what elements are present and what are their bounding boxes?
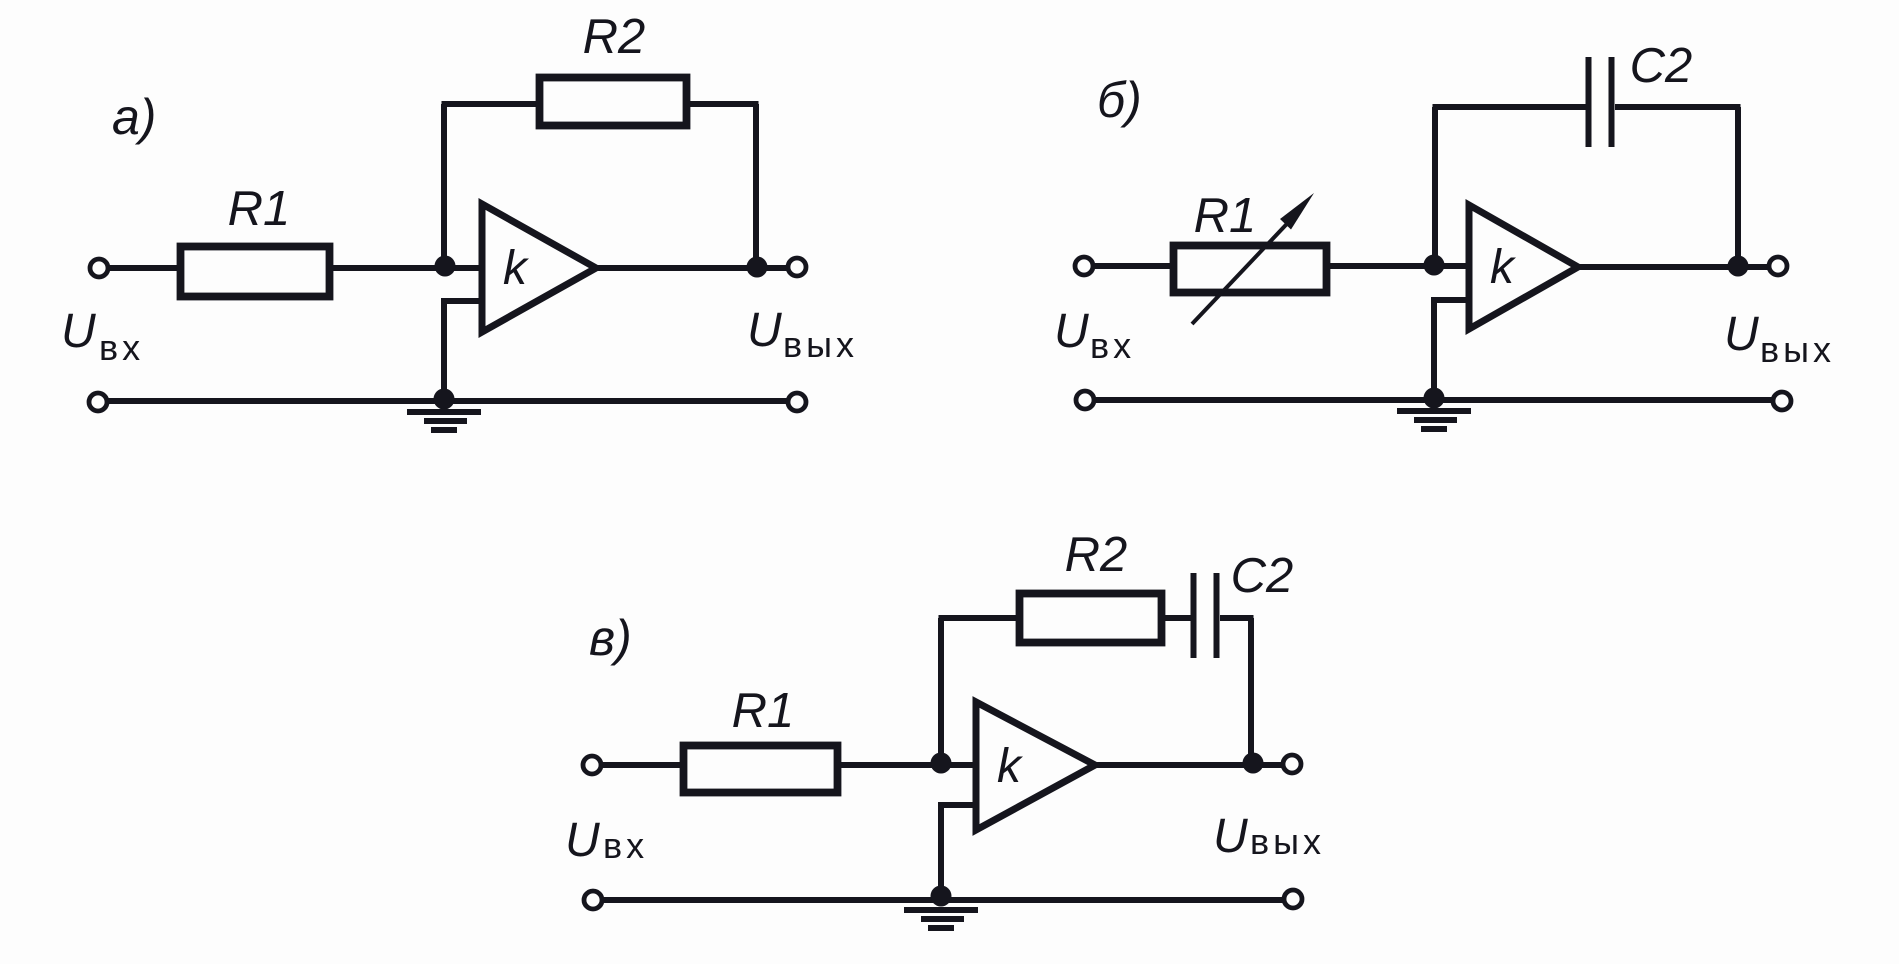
wire noninverting input (v)	[941, 805, 977, 897]
svg-text:R1: R1	[732, 684, 795, 738]
svg-text:R2: R2	[1065, 528, 1128, 582]
wire feedback top-right (a)	[686, 101, 759, 107]
wire output (a)	[594, 265, 790, 271]
node input junction (a)	[435, 256, 456, 277]
wire feedback top-left (b)	[1433, 104, 1587, 110]
ground (v)	[904, 910, 978, 928]
terminal rail left (v)	[584, 891, 602, 909]
terminal rail left (b)	[1076, 391, 1094, 409]
resistor R1 variable (b)	[1174, 246, 1327, 293]
terminal input a	[90, 259, 108, 277]
svg-text:R1: R1	[228, 182, 291, 236]
arrow of variable resistor (b)	[1192, 210, 1300, 324]
capacitor C2 right plate (b)	[1609, 57, 1615, 147]
terminal rail left (a)	[89, 393, 107, 411]
wire feedback up (a)	[441, 104, 447, 266]
node output junction (v)	[1243, 753, 1264, 774]
node rail junction (b)	[1424, 388, 1445, 409]
wire noninverting input horizontal (a)	[444, 301, 483, 400]
svg-text:вых: вых	[1760, 329, 1835, 370]
terminal rail right (a)	[788, 393, 806, 411]
svg-text:б): б)	[1097, 72, 1142, 128]
svg-text:вых: вых	[1250, 821, 1325, 862]
resistor R2 (v)	[1020, 594, 1162, 643]
op-amp U2 (b)	[1469, 205, 1578, 329]
svg-text:вх: вх	[99, 327, 144, 368]
wire input to R1 (b)	[1093, 263, 1174, 269]
svg-text:C2: C2	[1231, 549, 1294, 603]
terminal output (b)	[1769, 257, 1787, 275]
wire ground rail (b)	[1093, 397, 1774, 403]
svg-text:U: U	[1724, 308, 1759, 361]
node rail junction (a)	[434, 389, 455, 410]
svg-text:U: U	[1054, 305, 1089, 358]
wire R1 to input node (b)	[1327, 263, 1434, 269]
terminal rail right (b)	[1773, 392, 1791, 410]
wire R1 to input node (v)	[838, 762, 941, 768]
svg-text:а): а)	[112, 89, 156, 145]
ground (b)	[1397, 411, 1471, 429]
terminal input b	[1075, 257, 1093, 275]
svg-text:C2: C2	[1630, 39, 1693, 93]
svg-text:R1: R1	[1194, 189, 1257, 243]
terminal output (v)	[1283, 755, 1301, 773]
wire ground rail (a)	[106, 398, 789, 404]
svg-text:вых: вых	[783, 324, 858, 365]
capacitor C2 right plate (v)	[1214, 573, 1220, 658]
wire feedback down (a)	[753, 104, 759, 268]
wire feedback down (b)	[1735, 107, 1741, 267]
node input junction (b)	[1424, 255, 1445, 276]
wire feedback top-right (b)	[1615, 104, 1741, 110]
wire feedback up (v)	[938, 618, 944, 763]
wire inverting input (b)	[1434, 263, 1471, 269]
op-amp U1 (a)	[482, 204, 596, 332]
wire R2 to C2 (v)	[1161, 615, 1191, 621]
svg-text:k: k	[997, 740, 1024, 793]
capacitor C2 left plate (v)	[1191, 573, 1197, 658]
wire noninverting input (b)	[1434, 300, 1470, 398]
wire feedback down (v)	[1248, 618, 1254, 763]
node input junction (v)	[931, 753, 952, 774]
op-amp U3 (v)	[976, 702, 1095, 830]
wire output (b)	[1579, 264, 1771, 270]
wire ground rail (v)	[601, 897, 1285, 903]
capacitor C2 left plate (b)	[1586, 57, 1592, 147]
wire input to R1 (a)	[108, 265, 180, 271]
svg-text:k: k	[1490, 241, 1517, 294]
svg-text:в): в)	[589, 610, 632, 666]
terminal output (a)	[788, 258, 806, 276]
wire feedback up (b)	[1432, 107, 1438, 265]
svg-text:вх: вх	[603, 825, 648, 866]
svg-text:U: U	[747, 304, 782, 357]
svg-text:R2: R2	[583, 10, 646, 64]
resistor R1 (v)	[684, 746, 838, 793]
svg-text:U: U	[565, 814, 600, 867]
arrowhead (b)	[1280, 193, 1314, 230]
svg-text:k: k	[503, 242, 530, 295]
resistor R2 (a)	[540, 78, 687, 126]
ground (a)	[407, 412, 481, 430]
terminal input v	[583, 756, 601, 774]
node output junction (b)	[1728, 256, 1749, 277]
svg-text:вх: вх	[1090, 325, 1135, 366]
wire inverting input (a)	[445, 265, 484, 271]
wire feedback top-right (v)	[1220, 615, 1254, 621]
wire inverting input (v)	[941, 762, 978, 768]
node output junction (a)	[747, 257, 768, 278]
svg-text:U: U	[61, 305, 96, 358]
wire output (v)	[1091, 762, 1285, 768]
wire feedback top-left (a)	[442, 101, 541, 107]
wire R1 to input node (a)	[330, 265, 445, 271]
wire input to R1 (v)	[601, 762, 684, 768]
wire feedback top-left (v)	[939, 615, 1021, 621]
terminal rail right (v)	[1284, 890, 1302, 908]
node rail junction (v)	[931, 886, 952, 907]
svg-text:U: U	[1213, 810, 1248, 863]
resistor R1 (a)	[181, 247, 330, 297]
